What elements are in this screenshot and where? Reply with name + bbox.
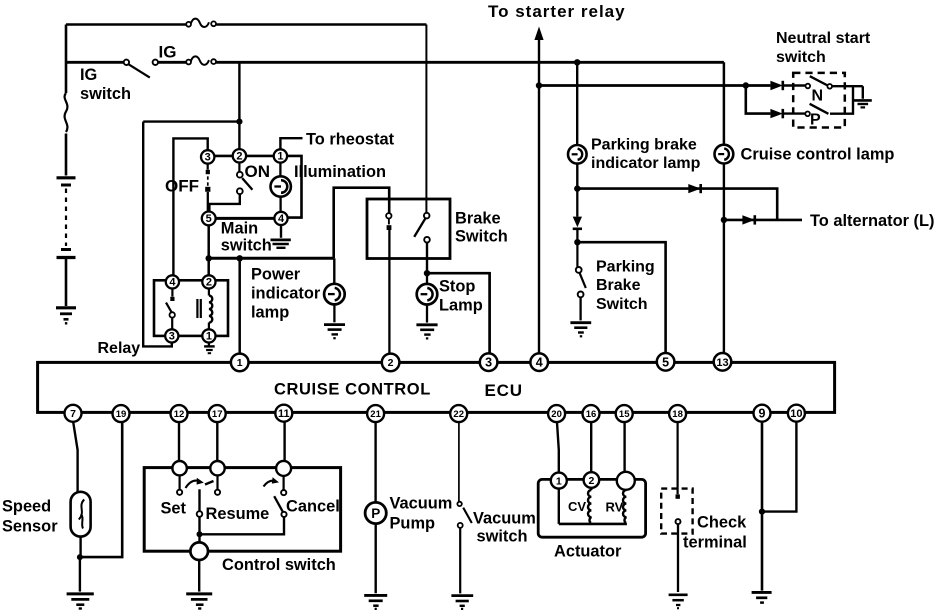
node junction cancel return / post [197,531,203,537]
wire common to ground [198,560,200,592]
relay terminal 2 [202,275,215,288]
svg-text:2: 2 [388,357,394,369]
wire power bus horizontal [209,257,334,260]
svg-text:Switch: Switch [455,228,508,246]
wire IG rail corner down to cruise lamp [723,62,726,144]
svg-text:Cruise control lamp: Cruise control lamp [741,146,895,164]
svg-text:7: 7 [70,408,76,420]
ECU terminal 16 (bottom) [583,405,600,422]
brake switch box [367,199,450,259]
svg-text:1: 1 [206,331,212,343]
svg-text:Stop: Stop [439,278,475,296]
svg-text:15: 15 [619,409,630,420]
ECU box (CRUISE CONTROL ECU) [38,362,835,412]
ECU terminal 11 (bottom) [275,405,292,422]
common post (control switch) [197,489,203,542]
svg-text:Speed: Speed [2,498,51,516]
label Speed Sensor [2,498,58,536]
label IG switch [80,66,131,103]
label Set [161,500,187,518]
wire right bracket terminal1 to terminal4 [287,156,302,218]
svg-text:ON: ON [245,162,271,181]
node junction at power bus left [206,255,212,261]
terminal 3 (main switch) [201,150,214,163]
wire top rail from battery to brake switch drop [66,23,426,26]
svg-text:17: 17 [212,409,223,420]
ECU terminal 4 (top) [530,353,548,371]
check terminal contacts [676,494,681,592]
svg-text:switch: switch [221,237,272,255]
ground (parking brake switch) [570,323,591,337]
svg-text:1: 1 [277,151,283,163]
svg-text:switch: switch [477,528,528,546]
svg-text:Neutral start: Neutral start [776,30,871,47]
diode D1 (N feed) [770,81,782,90]
vacuum switch [457,502,471,594]
ground (neutral start switch) [854,86,872,107]
wire ECU 18 down to check terminal [676,422,678,494]
svg-text:Cancel: Cancel [286,498,340,516]
svg-text:Illumination: Illumination [294,163,386,181]
ECU terminal 21 (bottom) [367,405,384,422]
actuator box [538,479,645,537]
ground (vacuum pump) [364,595,387,609]
svg-text:indicator lamp: indicator lamp [591,155,701,172]
label Control switch [222,556,336,574]
wire drop from IG rail to main switch terminal 2 [238,62,240,149]
wire riser power bus up and over to brake switch contact [334,188,390,259]
ground (battery) [56,308,76,324]
resume contact [215,475,220,495]
node junction speed sensor return [77,554,83,560]
ECU terminal 22 (bottom) [450,405,467,422]
ground (speed sensor) [67,594,94,609]
control switch terminal (set) [172,461,186,475]
label Check terminal [683,514,747,552]
battery [57,178,76,306]
label Vacuum switch [473,510,536,546]
switch ON contact chain [209,163,252,212]
svg-text:4: 4 [536,356,543,370]
node junction parking switch / ECU5 branch [574,239,580,245]
svg-text:Brake: Brake [455,210,501,228]
wire ECU 7 down to speed sensor [73,422,77,492]
svg-text:9: 9 [759,407,766,421]
set flick arrow [186,478,204,488]
svg-text:terminal: terminal [683,534,747,552]
lamp stop [417,273,438,322]
wire drop to brake switch (from top rail) [425,25,427,213]
ECU terminal 18 (bottom) [669,405,686,422]
control switch terminal (cancel) [276,461,291,476]
node junction P branch [743,82,749,88]
wire battery positive lead [65,25,68,176]
label CV [568,499,586,514]
neutral start switch dashed housing [793,73,845,128]
svg-text:4: 4 [169,277,176,289]
svg-text:P: P [810,112,821,129]
relay coil [197,289,212,330]
svg-text:IG: IG [80,66,97,84]
wire IG rail [66,61,724,64]
svg-text:IG: IG [159,43,177,62]
IG switch [124,60,158,78]
label Main switch [221,220,272,255]
svg-text:3: 3 [205,152,211,164]
svg-text:indicator: indicator [251,285,321,303]
svg-text:Vacuum: Vacuum [390,495,453,513]
ECU terminal 15 (bottom) [616,405,633,422]
label Actuator [554,543,622,561]
label CRUISE CONTROL [274,381,431,399]
label ON [245,162,271,181]
actuator terminal 1 [551,473,567,489]
svg-text:3: 3 [485,356,492,370]
lamp parking brake indicator [568,145,587,189]
label Neutral start switch [776,30,871,66]
svg-text:switch: switch [80,85,131,103]
label Parking brake indicator lamp [591,137,701,173]
node junction alternator branch [721,217,727,223]
wire terminal3 riser and OFF bracket to relay [173,138,207,275]
label Power indicator lamp [251,266,321,322]
wire horizontal to relay branch [143,120,239,122]
label ECU [485,381,523,400]
diode D4 (down, parking brake) [573,189,582,243]
wire neutral switch feed P [746,86,771,114]
relay terminal 3 [165,329,178,342]
svg-text:lamp: lamp [251,304,289,322]
label OFF [165,177,199,196]
wire to ground (speed sensor) [79,557,81,592]
ECU terminal 20 (bottom) [548,405,565,422]
wire cruise lamp down to ECU terminal 13 [723,164,725,353]
ground (vacuum switch) [451,596,473,609]
actuator common rail from terminal 1 [559,487,627,524]
wire riser power bus down to ECU terminal 1 [238,258,241,353]
arrow to starter relay [534,27,543,41]
ground (main switch terminal 4) [271,225,291,248]
label Cancel [286,498,340,516]
label Parking Brake Switch [596,259,655,314]
svg-text:CV: CV [568,499,586,514]
node junction starter branch [536,82,542,88]
label Resume [206,505,270,523]
ECU terminal 17 (bottom) [209,405,226,422]
wire speed sensor bottom to junction [79,537,81,558]
wire neutral switch feed N [539,84,770,87]
svg-text:To alternator (L): To alternator (L) [810,212,934,230]
ground (ECU 9) [752,592,772,602]
main switch top rail [214,155,274,158]
svg-text:3: 3 [169,331,175,343]
svg-text:Lamp: Lamp [439,297,483,315]
diode D5 (alternator) [742,215,754,224]
ECU terminal 10 (bottom) [788,405,805,422]
cancel flick arrow [264,477,280,486]
terminal 2 (main switch) [233,149,246,162]
switch OFF contact chain [205,164,210,212]
label Stop Lamp [439,278,483,315]
svg-text:13: 13 [716,357,728,369]
svg-text:Brake: Brake [596,277,641,294]
fuse F2 (IG) on IG rail [186,56,216,64]
wire return loop up to ECU terminal 19 [80,422,122,557]
svg-text:1: 1 [556,475,562,487]
ground (control switch) [186,594,212,609]
wire ECU 22 down to vacuum switch [458,422,460,501]
label To starter relay [488,2,626,21]
brake switch left contact chain to ECU terminal 2 [386,213,391,353]
node junction parking lamp / diode row [574,185,580,191]
wire ECU 21 down to vacuum pump [374,422,376,502]
ground (stop lamp) [416,325,437,339]
svg-text:18: 18 [672,409,683,420]
neutral start switch P contact [783,86,853,116]
svg-text:10: 10 [790,408,802,420]
wire ECU 16 down to actuator 2 [590,422,592,472]
wire starter vertical to ECU terminal 4 [538,38,540,353]
check terminal dashed box [661,489,692,534]
svg-text:Power: Power [251,266,301,284]
label To rheostat [306,131,395,149]
terminal 1 (main switch) [274,149,287,162]
svg-text:19: 19 [116,409,127,420]
svg-text:Sensor: Sensor [2,518,58,536]
svg-text:5: 5 [662,356,669,370]
svg-text:22: 22 [453,409,464,420]
brake switch right contact chain [414,213,430,273]
svg-text:To starter relay: To starter relay [488,2,626,21]
diode D3 [688,184,700,193]
svg-text:Vacuum: Vacuum [473,510,536,528]
svg-text:5: 5 [206,213,212,225]
label Illumination [294,163,386,181]
svg-text:Pump: Pump [390,515,436,533]
ground (power indicator lamp) [324,325,345,339]
svg-text:2: 2 [206,277,212,289]
node junction power bus / ECU1 riser [237,255,243,261]
wire ECU 15 down to actuator third terminal [623,422,625,471]
lamp power indicator [324,258,345,322]
svg-text:16: 16 [586,409,597,420]
actuator RV coil [623,488,626,523]
label Vacuum Pump [390,495,453,533]
svg-text:To rheostat: To rheostat [306,131,395,149]
actuator terminal (unnumbered) [617,472,635,490]
control switch terminal (resume) [210,461,224,475]
terminal 4 (main switch) [274,212,287,225]
label IG (fuse) [159,43,177,62]
set contact [177,475,182,495]
ECU terminal 12 (bottom) [171,405,188,422]
ECU terminal 7 (bottom) [65,405,82,422]
wire parking lamp drop [576,62,578,145]
wire terminal1 riser to rheostat [280,138,302,149]
control switch box [144,468,340,552]
svg-text:Switch: Switch [596,296,648,313]
resume flick blade [205,481,214,485]
lamp cruise control [715,145,734,164]
svg-text:1: 1 [237,357,243,369]
ECU terminal 3 (top) [480,353,498,371]
label Cruise control lamp [741,146,895,164]
ECU terminal 9 (bottom) [754,405,771,422]
relay terminal 4 [166,275,179,288]
svg-text:switch: switch [776,49,826,66]
wire ECU 11 down to control switch [283,422,285,461]
svg-text:12: 12 [174,409,185,420]
wire stop lamp branch to ECU terminal 3 [427,273,490,353]
ECU terminal 1 (top) [231,354,249,372]
neutral start switch N contact [783,76,863,88]
relay terminal 1 [202,329,215,342]
control switch common terminal [190,542,208,560]
label To alternator (L) [810,212,934,230]
node junction on drop at y=121.6 [236,119,242,125]
svg-text:RV: RV [606,500,624,515]
wire relay branch vertical down to relay terminal 3 [143,122,172,347]
svg-text:Main: Main [221,220,258,238]
svg-text:Parking brake: Parking brake [591,137,697,154]
svg-text:N: N [812,88,824,105]
relay switch contact [166,289,175,330]
wire diode row to jog [577,189,777,220]
fuse F1 on top rail [186,19,216,27]
wire ECU 17 down to control switch [216,422,218,461]
vacuum pump [365,502,386,523]
svg-text:Resume: Resume [206,505,270,523]
terminal 5 (main switch) [202,212,216,226]
svg-text:21: 21 [370,409,381,420]
wire pump to ground [375,524,377,594]
svg-text:2: 2 [588,475,594,487]
svg-text:11: 11 [278,408,290,420]
svg-text:ECU: ECU [485,381,523,400]
diode D2 (P feed) [770,109,782,118]
wire main switch 5 down to relay terminal 2 [207,225,210,275]
svg-text:Control switch: Control switch [222,556,336,574]
parking brake switch [576,242,586,320]
ECU terminal 13 (top) [714,353,732,371]
svg-text:Parking: Parking [596,259,655,276]
svg-text:20: 20 [551,409,562,420]
cancel contact chain [200,476,287,534]
label P [810,112,821,129]
ECU terminal 2 (top) [382,354,400,372]
svg-text:Check: Check [697,514,747,532]
svg-text:2: 2 [236,151,242,163]
actuator CV coil [588,487,591,523]
relay box [154,280,228,336]
svg-text:Set: Set [161,500,187,518]
node junction 9/10 [759,509,765,515]
svg-text:4: 4 [278,213,285,225]
label N [812,88,824,105]
wire ECU 20 down to actuator 1 [557,422,559,472]
wire ECU 12 down to control switch [178,422,180,461]
ground (relay terminal 1) [204,343,215,354]
actuator terminal 2 [584,472,600,488]
svg-text:OFF: OFF [165,177,199,196]
wire ECU 10 loop to 9 [762,422,796,512]
wire ECU 9 down to ground [761,422,764,591]
svg-text:Actuator: Actuator [554,543,622,561]
ECU terminal 19 (bottom) [113,405,130,422]
svg-text:P: P [371,506,380,521]
main switch bottom rail [215,217,274,220]
ground (check terminal) [669,595,688,608]
node stop lamp junction [424,270,430,276]
wire to alternator [724,219,802,222]
lamp illumination [271,163,291,212]
label RV [606,500,624,515]
wire branch to ECU terminal 5 [577,242,665,352]
ECU terminal 5 (top) [657,353,675,371]
svg-text:Relay: Relay [98,340,141,357]
svg-text:CRUISE CONTROL: CRUISE CONTROL [274,381,431,399]
label Brake Switch [455,210,508,246]
speed sensor body [71,492,91,537]
node junction IG rail / parking lamp [574,59,580,65]
label Relay [98,340,141,357]
